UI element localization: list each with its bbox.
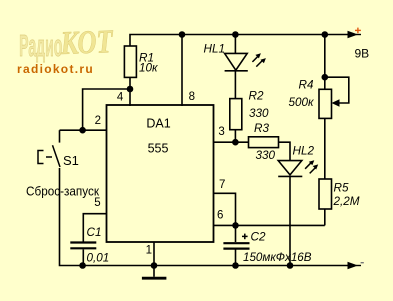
svg-text:5: 5 <box>94 197 100 209</box>
svg-text:S1: S1 <box>63 153 79 168</box>
svg-text:7: 7 <box>219 179 225 191</box>
resistor R1 <box>124 46 136 77</box>
wire top rail +9V <box>130 35 351 47</box>
svg-text:C2: C2 <box>251 230 266 243</box>
wire pin8 column <box>181 35 183 107</box>
svg-text:0,01: 0,01 <box>87 252 110 265</box>
svg-text:R5: R5 <box>334 182 349 195</box>
wire R2 to pin3 row <box>234 130 236 143</box>
svg-text:8: 8 <box>189 91 195 103</box>
wire R3 to HL2 <box>279 142 291 160</box>
wire pin2 row <box>60 129 107 131</box>
svg-text:2: 2 <box>95 115 101 127</box>
svg-text:R2: R2 <box>249 89 264 102</box>
LED HL1 <box>225 53 248 70</box>
resistor R3 <box>249 137 279 148</box>
junction R2 bottom on pin3 row <box>232 139 239 146</box>
svg-text:C1: C1 <box>87 226 102 239</box>
wire pin1 to ground <box>153 242 155 277</box>
wire S1 upper stub <box>59 130 61 142</box>
junction HL2 cathode on bottom rail <box>287 262 294 269</box>
wire R4 wiper rheostat loop <box>325 77 349 103</box>
junction R4 top on top rail <box>322 31 329 38</box>
svg-text:10к: 10к <box>139 62 158 75</box>
potentiometer R4 <box>319 89 332 118</box>
wire R4 to R5 <box>324 118 326 179</box>
wire HL1 to R2 <box>234 71 236 99</box>
svg-text:6: 6 <box>217 210 223 222</box>
wire pin6 row <box>214 224 325 226</box>
svg-text:9В: 9В <box>355 47 370 61</box>
svg-text:500к: 500к <box>289 96 315 109</box>
svg-text:DA1: DA1 <box>146 116 170 130</box>
junction C2 on bottom rail <box>232 262 239 269</box>
svg-text:R3: R3 <box>254 122 269 135</box>
IC DA1 555 box <box>107 105 214 242</box>
junction R4 wiper tap <box>322 74 329 81</box>
svg-text:4: 4 <box>117 91 124 103</box>
LED HL2 <box>278 161 302 177</box>
ground <box>142 277 167 280</box>
svg-text:3: 3 <box>218 126 224 138</box>
svg-text:HL1: HL1 <box>204 43 225 56</box>
capacitor C2 polarized <box>223 243 249 248</box>
capacitor C1 <box>70 243 96 249</box>
svg-text:R4: R4 <box>299 78 314 91</box>
svg-text:Сброс-запуск: Сброс-запуск <box>26 184 99 199</box>
wire HL2 to bottom rail <box>289 176 291 265</box>
junction R1 bottom / pin4 <box>127 86 134 93</box>
wire HL1 column from rail <box>234 35 236 54</box>
junction pin1 ground on bottom rail <box>151 262 158 269</box>
junction HL1 anode on top rail <box>232 31 239 38</box>
wire R5 to pin6 row <box>324 209 326 225</box>
svg-text:radiokot.ru: radiokot.ru <box>17 62 94 76</box>
node bottom rail arrow <box>348 262 359 269</box>
switch S1 <box>38 145 60 167</box>
junction C1 on bottom rail <box>79 262 86 269</box>
node supply arrow +9V <box>348 31 359 38</box>
wire R4 column from rail <box>324 35 326 90</box>
wire pin7 jog <box>214 193 236 225</box>
resistor R2 <box>230 99 242 130</box>
wire pin5 to C1 <box>83 214 106 242</box>
svg-text:150мкФх16В: 150мкФх16В <box>243 251 312 264</box>
wire S1 lower stub to bottom rail <box>60 168 352 266</box>
wire pin3 row <box>214 141 249 143</box>
svg-text:2,2M: 2,2M <box>333 195 360 208</box>
svg-text:330: 330 <box>249 107 269 120</box>
wire C2 column top <box>235 225 237 242</box>
junction pin6 pin7 C2 node <box>232 222 239 229</box>
svg-text:1: 1 <box>146 245 152 257</box>
wire pin4 row <box>83 89 130 130</box>
wire C1 to bottom rail <box>82 250 84 266</box>
wire C2 to bottom rail <box>235 250 237 266</box>
svg-text:КОТ: КОТ <box>59 24 114 62</box>
junction pin8 on top rail <box>179 31 186 38</box>
resistor R5 <box>319 179 332 209</box>
svg-text:HL2: HL2 <box>293 144 315 157</box>
svg-text:330: 330 <box>256 149 276 162</box>
junction pin2 / S1 branch <box>79 127 86 134</box>
svg-text:Радио: Радио <box>19 29 62 64</box>
svg-text:555: 555 <box>148 142 169 156</box>
wire R1 bottom to DA1 pin4 <box>129 77 131 106</box>
